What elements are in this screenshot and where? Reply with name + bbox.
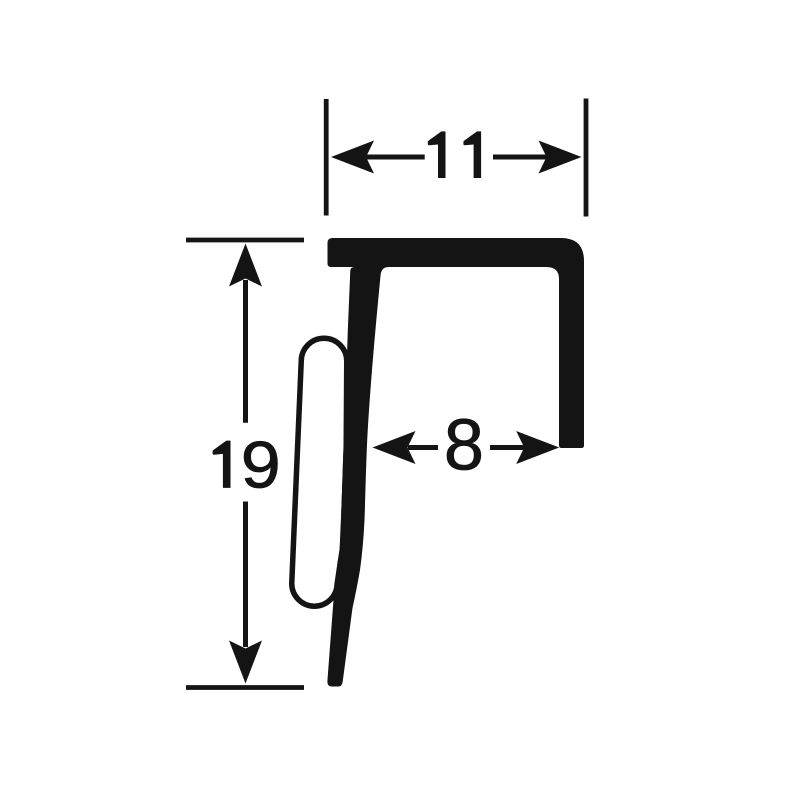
svg-text:9: 9	[241, 429, 281, 502]
profile cross-section body	[327, 238, 584, 687]
dimension 8: right arrowhead	[516, 431, 559, 464]
dimension 11: left arrowhead	[331, 141, 374, 174]
svg-text:8: 8	[444, 406, 484, 486]
dimension 19: lower shaft	[243, 502, 248, 648]
dimension 19: down arrowhead	[229, 641, 262, 684]
dimension 19: value label digit 1	[213, 441, 231, 488]
dimension 11: right shaft	[493, 155, 552, 160]
dimension 11: right extension line	[584, 99, 589, 217]
dimension 11: value label second digit 1	[463, 131, 481, 178]
gasket bubble (soft fin capsule)	[292, 338, 347, 606]
dimension 8: right shaft	[490, 445, 525, 450]
dimension 19: up arrowhead	[229, 244, 262, 287]
dimension 11: value label first digit 1	[428, 131, 446, 178]
dimension 19: bottom extension line	[186, 685, 304, 690]
dimension 11: left extension line	[324, 99, 329, 216]
dimension 19: top extension line	[186, 238, 304, 243]
dimension 8: left arrowhead	[373, 431, 416, 464]
dimension 11: right arrowhead	[539, 141, 582, 174]
dimension 8: left shaft	[408, 445, 438, 450]
dimension 19: upper shaft	[243, 280, 248, 423]
dimension 11: left shaft	[360, 155, 425, 160]
